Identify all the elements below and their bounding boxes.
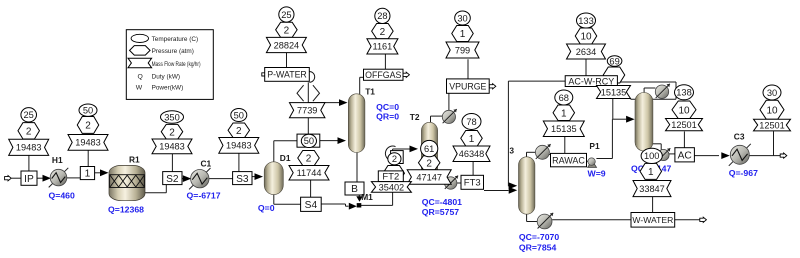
svg-text:11744: 11744 [297, 168, 322, 178]
svg-text:47147: 47147 [416, 172, 442, 182]
svg-text:W=9: W=9 [588, 168, 606, 178]
svg-text:VPURGE: VPURGE [449, 81, 486, 91]
svg-text:QC=0: QC=0 [376, 102, 399, 112]
svg-text:R1: R1 [129, 154, 140, 164]
svg-text:133: 133 [578, 16, 594, 26]
svg-text:QR=5757: QR=5757 [422, 207, 460, 217]
svg-text:61: 61 [424, 144, 434, 154]
svg-text:46348: 46348 [459, 149, 485, 159]
svg-text:D1: D1 [280, 153, 291, 163]
svg-text:100: 100 [644, 151, 660, 161]
svg-text:Q=-967: Q=-967 [729, 168, 758, 178]
svg-text:AC-W-RCY: AC-W-RCY [568, 76, 614, 86]
svg-text:1: 1 [85, 169, 91, 180]
svg-text:33847: 33847 [639, 184, 665, 194]
svg-text:15135: 15135 [601, 87, 627, 97]
svg-text:2634: 2634 [576, 47, 596, 57]
svg-text:2: 2 [236, 126, 242, 137]
svg-text:30: 30 [767, 88, 777, 98]
svg-text:FT2: FT2 [382, 172, 399, 183]
svg-text:Q=460: Q=460 [49, 190, 75, 200]
svg-text:M1: M1 [361, 192, 373, 202]
svg-text:30: 30 [457, 13, 467, 23]
svg-text:Duty (kW): Duty (kW) [152, 74, 180, 81]
svg-text:50: 50 [83, 106, 93, 116]
svg-text:19483: 19483 [75, 138, 101, 148]
svg-text:19483: 19483 [159, 142, 185, 152]
svg-text:Mass Flow Rate (kg/hr): Mass Flow Rate (kg/hr) [152, 61, 201, 68]
svg-text:QC=-4801: QC=-4801 [422, 197, 462, 207]
svg-text:T1: T1 [365, 86, 375, 96]
svg-text:B: B [351, 184, 358, 195]
svg-text:12501: 12501 [759, 120, 785, 130]
svg-text:W-WATER: W-WATER [632, 215, 673, 225]
svg-text:P-WATER: P-WATER [267, 70, 307, 80]
svg-text:2: 2 [380, 27, 386, 38]
svg-text:25: 25 [281, 10, 291, 20]
svg-text:2: 2 [169, 127, 175, 138]
svg-text:15135: 15135 [551, 124, 577, 134]
svg-text:Q: Q [138, 74, 143, 81]
svg-text:10: 10 [580, 32, 592, 43]
svg-text:W: W [136, 85, 143, 92]
svg-text:H1: H1 [52, 155, 63, 165]
svg-text:QR=7854: QR=7854 [519, 243, 557, 253]
svg-text:69: 69 [609, 56, 619, 66]
svg-text:19483: 19483 [16, 143, 42, 153]
svg-text:10: 10 [766, 105, 778, 116]
svg-text:Power(kW): Power(kW) [152, 85, 184, 92]
svg-text:2: 2 [426, 158, 432, 169]
svg-text:1161: 1161 [373, 42, 393, 52]
svg-text:RAWAC: RAWAC [552, 155, 585, 165]
svg-text:138: 138 [676, 88, 692, 98]
svg-text:2: 2 [85, 121, 91, 132]
svg-text:35402: 35402 [379, 182, 405, 192]
svg-text:C1: C1 [201, 158, 212, 168]
svg-text:68: 68 [559, 93, 569, 103]
svg-text:Q=12368: Q=12368 [108, 204, 144, 214]
svg-text:IP: IP [24, 174, 34, 185]
svg-text:350: 350 [164, 112, 180, 122]
svg-text:QR=0: QR=0 [376, 112, 399, 122]
svg-text:28: 28 [377, 11, 387, 21]
svg-text:Temperature (C): Temperature (C) [152, 36, 199, 43]
svg-text:28824: 28824 [274, 40, 300, 50]
svg-text:10: 10 [678, 105, 690, 116]
svg-text:OFFGAS: OFFGAS [365, 70, 401, 80]
svg-text:3: 3 [509, 145, 514, 155]
svg-text:AC: AC [678, 150, 692, 161]
svg-text:S3: S3 [236, 174, 249, 185]
svg-text:2: 2 [284, 25, 290, 36]
svg-text:T2: T2 [410, 112, 420, 122]
svg-text:S2: S2 [166, 174, 179, 185]
svg-text:P1: P1 [589, 141, 600, 151]
svg-text:12501: 12501 [671, 120, 697, 130]
svg-text:1: 1 [561, 108, 567, 119]
svg-text:7739: 7739 [297, 106, 317, 116]
svg-text:FT3: FT3 [464, 178, 481, 189]
svg-text:Pressure (atm): Pressure (atm) [152, 48, 194, 55]
svg-text:25: 25 [24, 110, 34, 120]
svg-text:78: 78 [466, 117, 476, 127]
svg-text:50: 50 [304, 136, 314, 146]
svg-text:Q=-6717: Q=-6717 [187, 190, 221, 200]
svg-text:1: 1 [648, 167, 654, 178]
svg-text:2: 2 [306, 154, 312, 165]
svg-text:S4: S4 [305, 200, 318, 211]
svg-text:2: 2 [392, 154, 397, 164]
svg-text:QC=-7070: QC=-7070 [519, 232, 559, 242]
svg-text:19483: 19483 [226, 141, 252, 151]
svg-text:Q=0: Q=0 [258, 203, 275, 213]
svg-text:799: 799 [455, 45, 470, 55]
svg-text:50: 50 [234, 110, 244, 120]
svg-text:C3: C3 [734, 131, 745, 141]
svg-text:1: 1 [460, 29, 466, 40]
svg-text:2: 2 [26, 126, 32, 137]
svg-text:1: 1 [469, 134, 475, 145]
